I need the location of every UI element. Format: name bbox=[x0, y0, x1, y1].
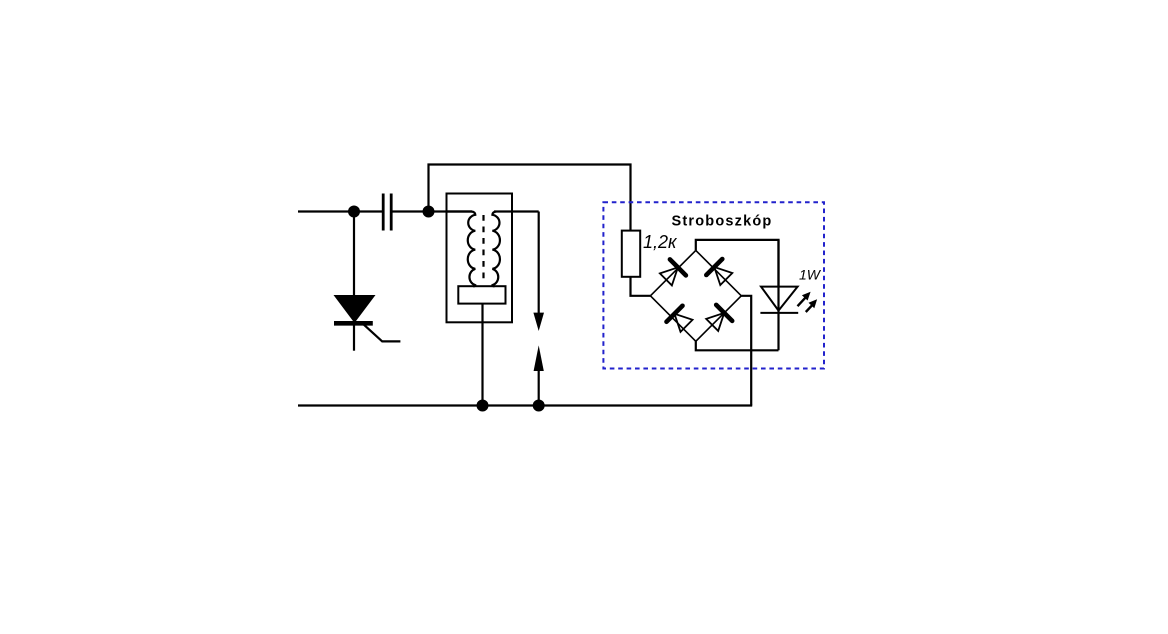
bridge diamond wires bbox=[650, 250, 741, 341]
resistor R1 1,2k bbox=[622, 231, 640, 277]
transformer secondary winding bbox=[492, 212, 500, 287]
wire bridge bottom to LED cathode bbox=[696, 341, 779, 350]
stroboszkop enclosure (blue dashed) bbox=[603, 202, 824, 368]
transformer core (dashed) bbox=[482, 215, 484, 284]
node B junction dot at capacitor right bbox=[423, 206, 435, 218]
LED light arrow 1 bbox=[798, 292, 811, 307]
svg-text:1W: 1W bbox=[799, 267, 822, 283]
wire bridge top to LED bbox=[696, 240, 779, 287]
thyristor D1 bbox=[334, 296, 400, 351]
bottom rail wire bbox=[298, 404, 752, 406]
wire capacitor to transformer bbox=[393, 210, 473, 212]
node A junction dot left bbox=[348, 206, 360, 218]
bridge diode D4 (bottom-left) bbox=[667, 306, 695, 334]
node D junction dot sparkgap/rail bbox=[533, 400, 545, 412]
wire transformer to bottom rail bbox=[481, 304, 483, 406]
bridge diode D2 (top-left) bbox=[658, 259, 686, 287]
bridge diode D5 (bottom-right) bbox=[704, 305, 732, 333]
spark gap upper electrode wire bbox=[538, 212, 540, 314]
wire resistor to bridge left node bbox=[631, 277, 651, 296]
wire bridge right output to bottom rail bbox=[741, 296, 751, 406]
transformer bottom plate bbox=[458, 286, 505, 303]
node C junction dot transformer/rail bbox=[477, 400, 489, 412]
wire secondary to spark gap bbox=[494, 210, 539, 212]
thyristor anode wire bbox=[353, 212, 355, 297]
LED light arrow 2 bbox=[806, 299, 817, 312]
spark gap upper arrow bbox=[533, 313, 544, 331]
svg-text:1,2к: 1,2к bbox=[643, 232, 678, 252]
spark gap lower electrode wire bbox=[538, 370, 540, 406]
wire top-left horizontal bbox=[298, 210, 382, 212]
wire top loop to resistor bbox=[429, 165, 631, 231]
svg-text:Stroboszkóp: Stroboszkóp bbox=[671, 213, 772, 229]
spark gap lower arrow bbox=[534, 345, 544, 371]
transformer primary winding bbox=[447, 212, 476, 287]
bridge diode D3 (top-right) bbox=[706, 259, 734, 287]
transformer box T1 bbox=[447, 194, 513, 323]
LED D6 bbox=[760, 240, 798, 350]
capacitor C1 bbox=[383, 194, 391, 231]
